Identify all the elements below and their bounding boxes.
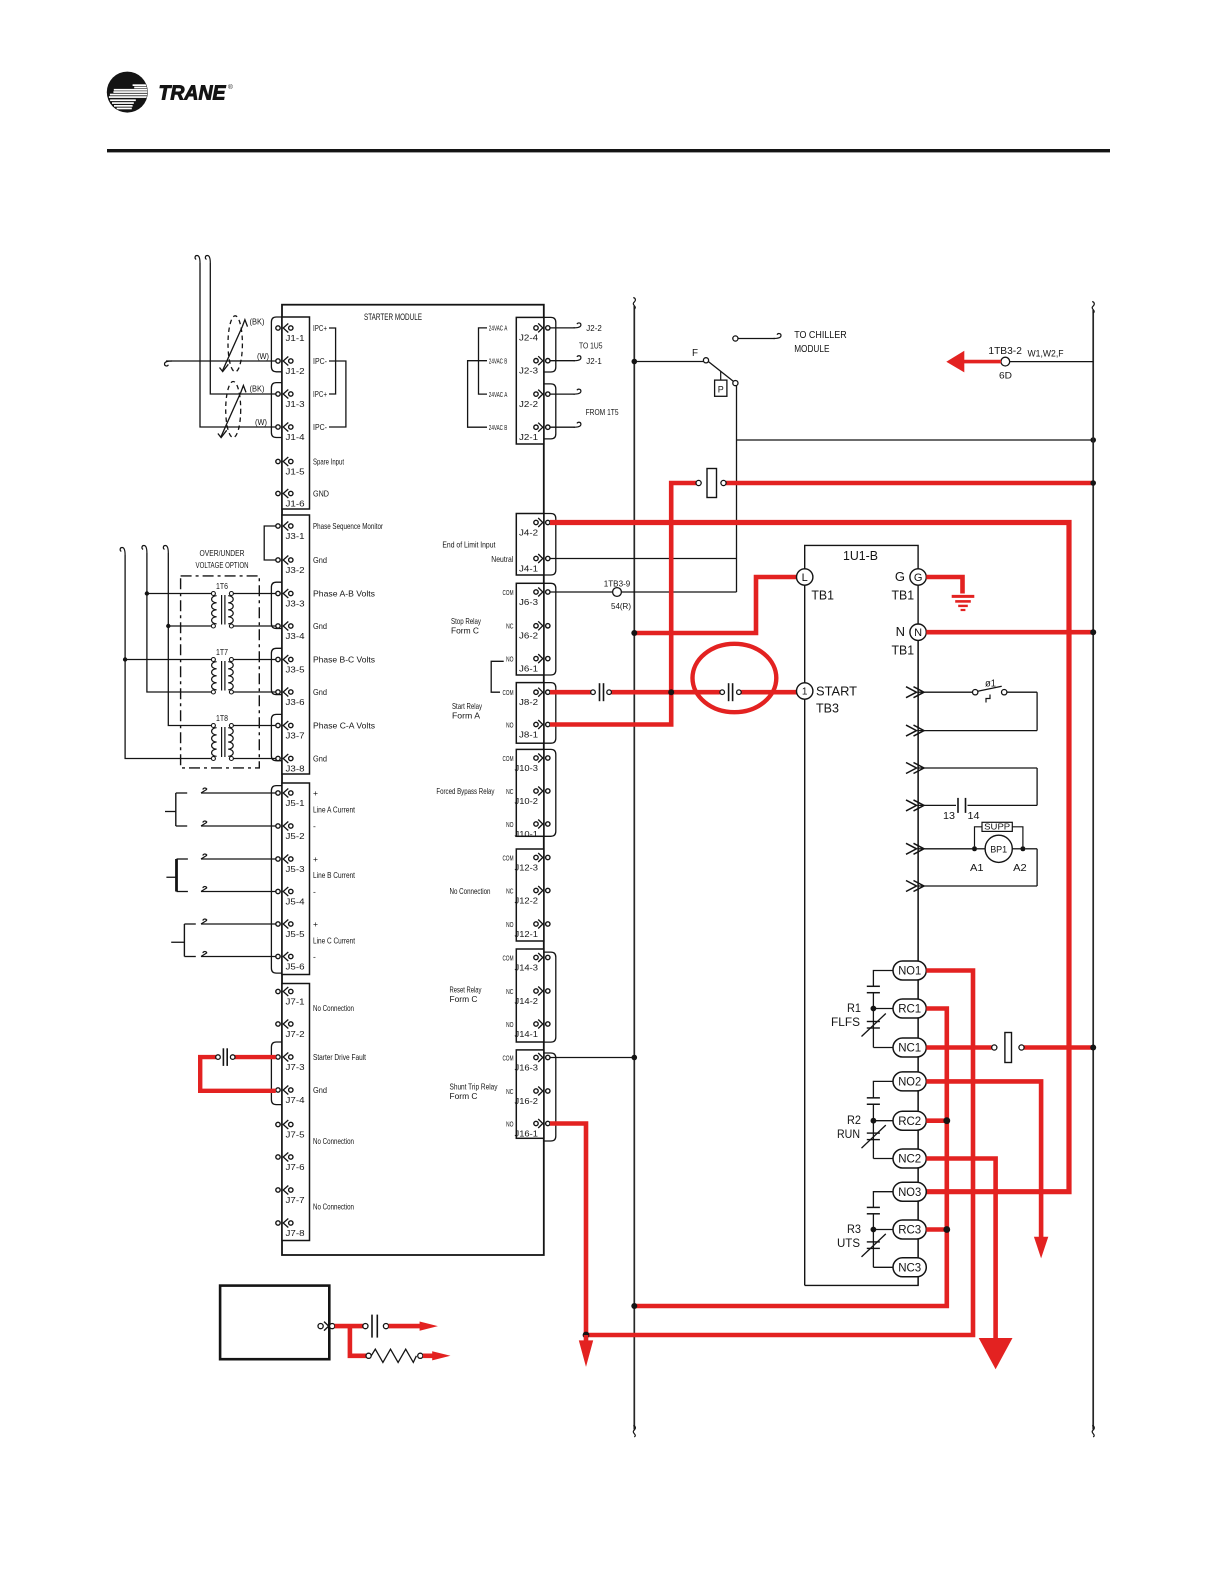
connector J4 pin J4-2 [534, 520, 538, 524]
wire vertical lead 2 (BK to J1-3) [210, 263, 275, 394]
svg-text:TRANE: TRANE [159, 82, 227, 105]
svg-text:(W): (W) [257, 351, 269, 361]
svg-text:+: + [313, 919, 318, 929]
svg-text:24VAC B: 24VAC B [489, 425, 508, 432]
wire CT lead to J5 row 826 [201, 825, 276, 827]
svg-text:®: ® [228, 83, 233, 91]
switch o1 actuator [986, 695, 990, 703]
svg-text:NO: NO [506, 920, 514, 929]
svg-text:NO: NO [506, 1119, 514, 1128]
connector J4 box [516, 514, 544, 576]
terminal A1 [972, 846, 977, 851]
svg-text:J5-5: J5-5 [286, 930, 306, 939]
connector J3 pin J3-4 [276, 624, 280, 628]
current transformer C (J5-5/J5-6) [183, 924, 185, 957]
svg-text:FROM 1T5: FROM 1T5 [586, 407, 619, 417]
connector J7 pin J7-3 [276, 1055, 280, 1059]
connector J5 pin J5-5 [276, 922, 280, 926]
svg-text:14: 14 [968, 811, 980, 822]
P actuator box [715, 380, 727, 396]
fuse switch F blade [708, 361, 734, 381]
svg-text:No Connection: No Connection [313, 1202, 354, 1212]
ground symbol (red) [952, 595, 975, 598]
connector J2 pin J2-4 [534, 326, 538, 330]
svg-text:RUN: RUN [837, 1127, 860, 1141]
svg-text:L: L [802, 572, 808, 584]
svg-text:24VAC A: 24VAC A [489, 392, 508, 399]
svg-text:NO: NO [506, 1020, 514, 1029]
wire CT lead to J5 row 956.5 [201, 956, 276, 958]
connector J2 pin J2-3 [534, 359, 538, 363]
svg-text:J5-1: J5-1 [286, 799, 306, 808]
svg-text:No Connection: No Connection [450, 886, 491, 896]
svg-text:OVER/UNDER: OVER/UNDER [200, 548, 245, 558]
connector J7 box [282, 984, 310, 1241]
terminal 1 START TB3 [797, 683, 813, 699]
svg-text:+: + [313, 854, 318, 864]
switch o1 terminals and blade [973, 690, 978, 695]
wire bus to fuse switch F [634, 361, 703, 363]
thermistor sensor 2 tail tick [218, 430, 227, 437]
svg-text:J7-7: J7-7 [286, 1196, 306, 1205]
wire switch throw down to neutral node [736, 386, 738, 592]
svg-text:J16-1: J16-1 [515, 1129, 539, 1138]
connector J4 pin J4-1 [534, 556, 538, 560]
wire transformer secondary top y659.5 to J3 [233, 659, 275, 661]
svg-text:Gnd: Gnd [313, 687, 327, 697]
junction neutral branch at right rail [1090, 437, 1096, 443]
svg-text:J4-1: J4-1 [519, 564, 539, 573]
wire CT lead to J5 row 859 [201, 858, 276, 860]
connector J3 pin J3-3 [276, 591, 280, 595]
junction RC chain at center bus [631, 1303, 637, 1309]
svg-text:N: N [914, 627, 922, 639]
svg-text:NC1: NC1 [898, 1043, 921, 1055]
terminal block on NC1 wire [992, 1045, 997, 1050]
wire lead C to 1T6 bottom [168, 625, 211, 627]
red stub RC2 to chain [926, 1118, 947, 1123]
svg-text:F: F [692, 348, 698, 359]
hook top of phase lead C [163, 546, 168, 554]
svg-text:Reset Relay: Reset Relay [450, 985, 483, 995]
connector J6 pin J6-3 [534, 590, 538, 594]
svg-text:NC3: NC3 [898, 1263, 921, 1275]
rung 3 wire with BP1 coil [918, 848, 972, 850]
connector J2 box [516, 317, 544, 444]
svg-text:COM: COM [503, 688, 514, 697]
red wire NO1 down to interlock row [586, 971, 973, 1336]
svg-text:6D: 6D [999, 371, 1012, 382]
squiggle top of right rail [1092, 302, 1094, 314]
hook top of lead 2 [205, 256, 210, 264]
red wire NO2 with down arrow [926, 1081, 1041, 1238]
svg-text:No Connection: No Connection [313, 1003, 354, 1013]
svg-text:No Connection: No Connection [313, 1136, 354, 1146]
hook top of phase lead B [142, 546, 147, 554]
rung 2 wire with contact 13-14 [918, 767, 1037, 769]
svg-text:-: - [313, 952, 316, 962]
svg-text:NC: NC [506, 622, 514, 631]
bracket J7-3/J7-4 pair [271, 1042, 282, 1105]
suppressor SUPP box [982, 822, 1012, 831]
svg-text:Starter Drive Fault: Starter Drive Fault [313, 1052, 366, 1062]
squiggle top of center bus [633, 298, 635, 310]
svg-text:J12-3: J12-3 [515, 863, 539, 872]
connector J7 pin J7-6 [276, 1155, 280, 1159]
chevron pin at y 886 [906, 881, 917, 892]
svg-text:SUPP: SUPP [984, 823, 1010, 832]
svg-text:J10-2: J10-2 [515, 797, 539, 806]
wire transformer secondary bottom y692 to J3 [233, 691, 275, 693]
bracket J2-2/J2-1 pair [544, 384, 556, 439]
wire CT lead to J5 row 793 [201, 792, 276, 794]
svg-text:RC2: RC2 [898, 1116, 921, 1128]
connector J5 pin J5-2 [276, 824, 280, 828]
wire IPC- link J1-2 to J1-4 [329, 361, 346, 427]
connector J1 pin J1-3 [276, 392, 280, 396]
svg-text:1T6: 1T6 [216, 581, 228, 591]
junction NC1 wire at right rail [1090, 1045, 1096, 1051]
connector J16 pin J16-2 [534, 1089, 538, 1093]
wire lead A to 1T7 top [125, 659, 211, 661]
svg-text:J6-2: J6-2 [519, 632, 539, 641]
wire transformer secondary bottom y758.5 to J3 [233, 758, 275, 760]
svg-text:Line C Current: Line C Current [313, 936, 355, 946]
terminal A2 [1020, 846, 1025, 851]
relay R1 wire bars to coil node [872, 993, 874, 1009]
svg-text:NO1: NO1 [898, 966, 921, 978]
terminal NO2 [893, 1072, 926, 1091]
terminal RC2 [893, 1111, 926, 1130]
svg-text:NO3: NO3 [898, 1187, 921, 1199]
svg-text:ø1: ø1 [985, 679, 996, 690]
terminal NC3 [893, 1258, 926, 1277]
squiggle bottom of right rail [1092, 1426, 1094, 1438]
svg-text:Spare Input: Spare Input [313, 457, 344, 467]
chevron pin at y 730.6 [906, 725, 917, 736]
svg-text:Neutral: Neutral [491, 554, 513, 564]
junction lead B / 1T6 [145, 591, 149, 595]
red wire bus to L TB1 [634, 577, 796, 633]
svg-text:J5-6: J5-6 [286, 962, 306, 971]
svg-text:Phase A-B Volts: Phase A-B Volts [313, 589, 375, 599]
red wire RC1 chain down to bus [634, 1009, 947, 1307]
svg-text:End of Limit Input: End of Limit Input [442, 540, 496, 550]
bracket J1-1/J1-2 pair [271, 317, 282, 372]
svg-text:Shunt Trip Relay: Shunt Trip Relay [450, 1082, 499, 1092]
bracket J6 group [544, 583, 556, 675]
connector J5 pin J5-3 [276, 857, 280, 861]
red wire right rail to start-relay NO J8-1 [726, 481, 1093, 486]
connector J14 pin J14-3 [534, 955, 538, 959]
red wire to right arrow (upper) [389, 1324, 421, 1329]
svg-text:N: N [896, 624, 905, 639]
terminal RC1 [893, 999, 926, 1018]
junction red wire at right rail y483 [1090, 480, 1096, 486]
connector J14 pin J14-1 [534, 1022, 538, 1026]
wire CT lead to J5 row 891.5 [201, 891, 276, 893]
terminal G TB1 [910, 569, 926, 585]
svg-text:Line A Current: Line A Current [313, 805, 355, 815]
thermistor sensor 1 arrowhead [242, 320, 247, 327]
junction lead C / 1T6 [166, 624, 170, 628]
svg-text:24VAC B: 24VAC B [489, 359, 508, 366]
svg-text:1TB3-9: 1TB3-9 [604, 579, 631, 589]
1U1-B box [805, 545, 918, 1285]
relay R2 NO-side link wire [873, 1081, 894, 1097]
connector J1 pin J1-6 [276, 491, 280, 495]
svg-text:J14-1: J14-1 [515, 1030, 539, 1039]
connector J1 pin J1-5 [276, 459, 280, 463]
red wire N to right rail [926, 630, 1093, 635]
relay R2 wire bars to coil node [872, 1104, 874, 1120]
connector J7 pin J7-1 [276, 989, 280, 993]
connector J14 box [516, 949, 544, 1042]
wire phase lead A [125, 555, 211, 759]
svg-text:J3-3: J3-3 [286, 599, 306, 608]
svg-text:Stop Relay: Stop Relay [451, 616, 482, 626]
coil BP1 [985, 835, 1012, 862]
connector J5 pin J5-4 [276, 889, 280, 893]
svg-text:NO2: NO2 [898, 1077, 921, 1089]
contact terminals on device wire [363, 1324, 368, 1329]
svg-text:A2: A2 [1013, 863, 1027, 874]
svg-text:24VAC A: 24VAC A [489, 326, 508, 333]
connector J1 box [282, 317, 310, 509]
wire vertical lead 1 (W to J1-4) [200, 263, 276, 427]
svg-text:Phase Sequence Monitor: Phase Sequence Monitor [313, 521, 383, 531]
svg-text:J1-6: J1-6 [286, 499, 306, 508]
wire J2 pin row 394.1 to field [550, 393, 575, 395]
hook left end of J1-2 lead [165, 361, 173, 366]
chevron pin at y 692.2 [906, 687, 917, 698]
svg-text:1U1-B: 1U1-B [843, 548, 878, 563]
svg-text:J6-1: J6-1 [519, 664, 539, 673]
svg-text:Gnd: Gnd [313, 555, 327, 565]
svg-text:IPC-: IPC- [313, 356, 327, 366]
svg-text:Gnd: Gnd [313, 754, 327, 764]
svg-text:Forced Bypass Relay: Forced Bypass Relay [436, 786, 495, 796]
svg-text:NC: NC [506, 987, 514, 996]
wire 24VAC B link [468, 361, 487, 428]
svg-text:COM: COM [503, 754, 514, 763]
svg-text:STARTER MODULE: STARTER MODULE [364, 312, 422, 322]
relay R2 NC contact symbol [872, 1121, 874, 1159]
thermistor sensor 2 arrowhead [241, 386, 246, 393]
terminal RC3 [893, 1220, 926, 1239]
wire link NO J6-1 to COM J8-2 [491, 661, 504, 692]
svg-text:J10-3: J10-3 [515, 764, 539, 773]
relay R1 coil node dot [871, 1006, 877, 1012]
terminal 1TB3-9 [613, 588, 622, 597]
connector J3 box [282, 515, 310, 774]
svg-text:TB1: TB1 [892, 643, 915, 658]
svg-text:1: 1 [802, 687, 808, 698]
connector J14 pin J14-2 [534, 989, 538, 993]
starter module box [282, 305, 544, 1255]
connector J3 pin J3-6 [276, 690, 280, 694]
relay R3 NC contact symbol [872, 1230, 874, 1268]
connector J10 box [516, 749, 544, 836]
junction shunt trip / interlock row [583, 1332, 590, 1339]
svg-text:J2-4: J2-4 [519, 334, 539, 343]
contact terminals in J7 jumper [230, 1055, 235, 1060]
connector J8 pin J8-1 [534, 722, 538, 726]
wire J6-3 COM to terminal 1TB3-9 [550, 591, 613, 593]
junction RC3 on chain [943, 1226, 950, 1233]
svg-text:J2-3: J2-3 [519, 367, 539, 376]
connector J7 pin J7-5 [276, 1122, 280, 1126]
svg-text:J12-2: J12-2 [515, 896, 539, 905]
svg-text:J3-7: J3-7 [286, 731, 306, 740]
relay R3 coil node dot [871, 1227, 877, 1233]
svg-text:UTS: UTS [837, 1236, 860, 1250]
svg-text:Phase C-A Volts: Phase C-A Volts [313, 721, 375, 731]
svg-text:J1-4: J1-4 [286, 433, 306, 442]
red wire J16-1 shunt trip down [550, 1124, 586, 1336]
svg-text:J7-1: J7-1 [286, 997, 306, 1006]
bracket J3-5/J3-6 pair [271, 648, 282, 694]
svg-text:IPC+: IPC+ [313, 389, 327, 399]
svg-text:A1: A1 [970, 863, 984, 874]
relay R1 NO-side link wire [873, 971, 894, 987]
svg-text:J6-3: J6-3 [519, 598, 539, 607]
svg-text:NC: NC [506, 1087, 514, 1096]
svg-text:J2-2: J2-2 [586, 323, 602, 333]
terminal N TB1 [910, 624, 926, 640]
rung 1 wire with switch [918, 691, 973, 693]
bracket J10 group [544, 749, 556, 836]
relay R2 coil node dot [871, 1118, 877, 1124]
terminal NO1 [893, 961, 926, 980]
bracket J2-4/J2-3 pair [544, 317, 556, 372]
connector J3 pin J3-8 [276, 756, 280, 760]
resistor with terminals [366, 1353, 371, 1358]
hook top of lead 1 [195, 256, 200, 264]
contact terminals on start wire (highlighted pair) [720, 690, 725, 695]
fuse switch F hinge terminal [703, 358, 708, 363]
terminal NO3 [893, 1182, 926, 1201]
svg-text:J7-6: J7-6 [286, 1163, 306, 1172]
chevron pin at y 805.4 [906, 800, 917, 811]
red highlight ellipse around start contact [693, 644, 777, 712]
svg-text:TO 1U5: TO 1U5 [579, 341, 603, 351]
connector J16 box [516, 1050, 544, 1138]
svg-text:J3-1: J3-1 [286, 532, 306, 541]
red wire from device pin [335, 1324, 363, 1329]
wire transformer secondary top y593.5 to J3 [233, 593, 275, 595]
junction bus / L wire [631, 630, 637, 636]
wire loop J3-1 to J3-2 [264, 526, 276, 560]
fuse terminal block on red wire y483 [696, 480, 701, 485]
thermistor sensor 2 element [221, 392, 241, 437]
connector J3 pin J3-2 [276, 558, 280, 562]
connector J1 pin J1-2 [276, 359, 280, 363]
wire to chiller module [738, 338, 775, 340]
svg-text:RC1: RC1 [898, 1004, 921, 1016]
bracket J4 pair [544, 514, 556, 576]
svg-text:Form C: Form C [450, 1091, 478, 1101]
thermistor sensor 1 tail tick [220, 364, 229, 371]
svg-text:NO: NO [506, 720, 514, 729]
connector J7 pin J7-2 [276, 1022, 280, 1026]
wire 24VAC A link [479, 328, 488, 394]
wire CT lead to J5 row 924 [201, 923, 276, 925]
svg-text:R2: R2 [847, 1113, 861, 1127]
connector J7 pin J7-8 [276, 1221, 280, 1225]
current transformer B (J5-3/J5-4) [175, 859, 178, 892]
svg-text:1T7: 1T7 [216, 647, 228, 657]
thermistor sensor 2 body [226, 382, 241, 438]
svg-text:FLFS: FLFS [831, 1015, 860, 1029]
wire J16-3 COM to center bus [550, 1057, 635, 1059]
connector J7 pin J7-7 [276, 1188, 280, 1192]
svg-text:J10-1: J10-1 [515, 830, 539, 839]
svg-text:J7-3: J7-3 [286, 1063, 306, 1072]
red wire J4-2 end-of-limit to NO3 (long highlight) [550, 523, 1069, 1192]
connector J7 pin J7-4 [276, 1088, 280, 1092]
relay R3 NO-side link wire [873, 1192, 894, 1208]
wire J2 pin row 360.7 to field [550, 360, 575, 362]
connector J1 pin J1-4 [276, 425, 280, 429]
suppressor SUPP wiring [975, 827, 983, 847]
svg-text:J7-5: J7-5 [286, 1130, 306, 1139]
wire neutral branch to right rail [737, 439, 1094, 441]
1U1-B right edge lower segment [917, 640, 919, 1285]
bracket J14 group [544, 952, 556, 1042]
svg-text:13: 13 [943, 811, 955, 822]
connector J8 pin J8-2 [534, 690, 538, 694]
svg-text:TB1: TB1 [811, 588, 834, 603]
chevron pin at y 768 [906, 763, 917, 774]
svg-text:J1-2: J1-2 [286, 367, 306, 376]
svg-text:START: START [816, 684, 857, 699]
terminal NC1 [893, 1038, 926, 1057]
connector J10 pin J10-3 [534, 756, 538, 760]
svg-text:J7-4: J7-4 [286, 1096, 306, 1105]
relay R3 wire bars to coil node [872, 1214, 874, 1230]
connector J10 pin J10-1 [534, 822, 538, 826]
svg-text:P: P [718, 385, 724, 395]
svg-text:J5-3: J5-3 [286, 865, 306, 874]
svg-text:J5-2: J5-2 [286, 832, 306, 841]
svg-text:W1,W2,F: W1,W2,F [1028, 349, 1064, 360]
svg-text:COM: COM [503, 588, 514, 597]
junction N wire at right rail [1090, 629, 1096, 635]
svg-text:Phase B-C Volts: Phase B-C Volts [313, 655, 375, 665]
junction bus / F wire [632, 359, 638, 365]
svg-text:(BK): (BK) [250, 384, 265, 394]
svg-text:COM: COM [503, 953, 514, 962]
svg-text:J16-3: J16-3 [515, 1063, 539, 1072]
junction start wire / J8-1 red vertical [668, 689, 674, 695]
junction J16-3 wire at center bus [632, 1055, 638, 1061]
connector J10 pin J10-2 [534, 789, 538, 793]
svg-text:VOLTAGE OPTION: VOLTAGE OPTION [196, 560, 249, 570]
svg-text:J7-8: J7-8 [286, 1229, 306, 1238]
svg-text:TO CHILLER: TO CHILLER [794, 329, 847, 341]
svg-text:J4-2: J4-2 [519, 528, 539, 537]
junction lead A / 1T7 [123, 657, 127, 661]
svg-text:J3-6: J3-6 [286, 698, 306, 707]
connector J2 pin J2-2 [534, 392, 538, 396]
svg-text:Gnd: Gnd [313, 621, 327, 631]
connector J3 pin J3-1 [276, 524, 280, 528]
svg-text:Gnd: Gnd [313, 1085, 327, 1095]
svg-text:IPC+: IPC+ [313, 323, 327, 333]
connector J12 pin J12-1 [534, 922, 538, 926]
svg-text:Form A: Form A [452, 711, 480, 721]
